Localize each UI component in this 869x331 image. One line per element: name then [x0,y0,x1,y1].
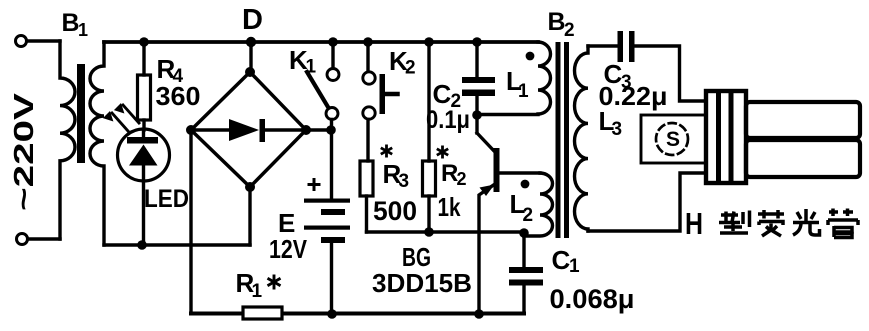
terminal top-left ~220V input [16,36,27,47]
svg-text:3: 3 [399,171,410,192]
bridge diode bar [260,119,266,142]
capacitor C1 lead [522,234,525,267]
transistor BG base bar [494,148,500,192]
resistor R4 [138,75,151,120]
node D [246,37,256,47]
resistor R4 lead [142,42,145,75]
svg-text:H: H [685,206,703,241]
svg-text:C: C [433,79,452,109]
transistor BG emitter wire [479,184,495,314]
wire K1 to battery [330,120,333,201]
svg-text:0.068μ: 0.068μ [550,284,635,314]
svg-text:B: B [548,8,566,36]
svg-text:1: 1 [306,57,317,78]
node dot R2 bottom [424,227,434,237]
capacitor C2 plates [462,77,495,83]
inductor L1 winding [538,42,551,114]
wire bridge left vertex to bottom rail [189,130,192,313]
switch K1 upper contact [327,69,339,81]
svg-text:~220V: ~220V [8,93,39,211]
transistor BG collector wire [477,133,495,152]
svg-text:1: 1 [569,256,580,277]
LED circle [118,129,170,181]
wire C2 bottom [475,96,478,133]
wire bridge bottom vertex down [248,187,251,245]
lamp base inner bar 2 [729,93,734,181]
wire bridge right vertex to battery line [306,128,331,131]
wire L3 top to C3 [588,44,618,47]
svg-text:1k: 1k [438,192,461,222]
wire top rail [104,40,538,44]
switch K1 lead [331,42,334,68]
hanzi 管 [828,209,858,238]
wire D to bridge [249,42,252,72]
hanzi 光 [793,209,820,235]
LED arrow 2 [123,105,139,123]
starter S box [641,115,706,163]
transistor BG emitter arrow [480,185,495,197]
svg-text:2: 2 [564,20,575,41]
label R3 asterisk [381,145,392,158]
hanzi 型 [719,211,750,234]
switch K2 button bar [380,74,386,114]
transformer B2 core [556,42,561,238]
bridge vertex dots [245,67,255,77]
wire R2 bottom [427,196,430,232]
switch K2 stem [385,92,398,97]
hanzi 荧 [758,210,784,236]
lamp tube bottom [746,140,860,177]
svg-text:S: S [666,128,680,151]
node dot R2 top [424,37,434,47]
svg-text:3DD15B: 3DD15B [372,268,472,298]
svg-text:LED: LED [144,185,189,213]
label R1 asterisk [268,275,281,290]
svg-text:C: C [552,245,571,275]
resistor R2 lead [427,42,430,161]
svg-text:2: 2 [405,58,416,79]
switch K2 lower contact [363,107,375,119]
node dot LED bottom [137,240,147,250]
wire [142,120,145,130]
lamp tube top [746,102,860,138]
svg-text:1: 1 [78,20,88,40]
wire base to L2 [499,171,540,174]
svg-text:360: 360 [156,81,201,111]
node dot battery top junction [326,125,336,135]
wire LED internal [142,130,145,138]
wire [27,39,60,42]
node dot K2 top [363,37,373,47]
switch K1 lower contact [326,108,338,120]
switch K2 upper contact [363,72,375,84]
bridge diode lead [196,128,229,131]
terminal bottom-left ~220V input [17,234,28,245]
svg-text:B: B [62,9,80,37]
lamp base inner bar 1 [716,93,721,181]
svg-text:D: D [242,4,263,36]
LED cathode bar [127,137,158,144]
wire battery bottom [330,243,333,314]
LED triangle [129,145,158,166]
resistor R1 [243,307,282,319]
label R2 asterisk [437,146,448,159]
transformer B1 secondary winding [90,42,104,245]
svg-text:1: 1 [252,281,263,302]
wire LED to bottom [142,165,145,245]
capacitor C1 plates [509,267,543,273]
resistor R3 [360,161,373,196]
svg-text:2: 2 [523,205,534,226]
switch K2 lead [366,42,369,71]
capacitor C2 lead [475,42,478,77]
wire [265,128,306,131]
L1 polarity dot [526,52,535,61]
node dot battery bottom [327,309,337,319]
svg-text:3: 3 [612,119,623,140]
svg-text:500: 500 [373,196,417,226]
wire lamp lower loop [588,173,706,231]
wire mid rail (base bias) [367,230,525,233]
transformer B1 primary winding [60,41,75,239]
starter S dashed circle [656,123,688,155]
node dot C2/L1/collector [472,110,482,120]
wire K2 to R3 [366,120,369,162]
node dot C2 top [472,37,482,47]
inductor L2 winding [524,173,553,236]
svg-text:0.1μ: 0.1μ [426,106,470,134]
wire bottom AC wire [104,243,250,246]
bridge rectifier D diamond [191,72,306,187]
node dot L2/C1 junction [519,228,529,238]
label + battery [308,178,321,191]
bridge diode triangle [229,119,259,141]
svg-text:12V: 12V [269,234,308,264]
capacitor C3 plates [618,31,624,62]
L2 polarity dot [521,180,530,189]
svg-text:1: 1 [518,81,529,102]
LED arrow 1 [112,113,128,131]
node dot emitter bottom [474,309,484,319]
wire L1 bottom lead [477,113,538,116]
svg-text:2: 2 [457,169,467,189]
wire C1 bottom [522,286,525,314]
wire bottom rail [191,312,524,316]
transformer B1 core [77,64,85,163]
node dot R4 top [139,37,149,47]
wire C3 to lamp [635,46,707,101]
lamp base outer [706,91,746,183]
battery E plates [304,199,350,203]
resistor R2 [423,161,436,196]
switch K1 blade [307,72,328,107]
wire R3 bottom [365,196,368,232]
inductor L3 winding [575,46,589,231]
node dot K1 top [328,37,338,47]
wire [28,237,60,240]
